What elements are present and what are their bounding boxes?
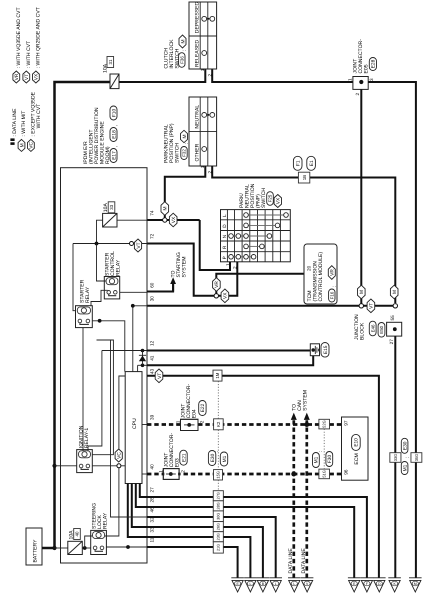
wire VX table pin1 to pin74 node [200, 220, 230, 270]
label F36 / M badge [179, 35, 188, 67]
harness connector K2 on pin39 wire [214, 419, 224, 430]
CPU box [125, 372, 142, 484]
svg-text:L: L [249, 582, 251, 586]
pin 2 clutch switch [208, 74, 213, 77]
svg-text:: WITH QR25DE AND CVT: : WITH QR25DE AND CVT [36, 7, 42, 68]
svg-text:96: 96 [343, 469, 348, 475]
junction starter relay output [98, 319, 102, 323]
svg-text:M: M [182, 135, 188, 139]
junction pin30/CPU [131, 304, 135, 308]
wire starter relay output [92, 321, 125, 372]
svg-text:VC: VC [29, 142, 35, 149]
legend data line sample [10, 108, 17, 145]
wire to starter relay coil [73, 244, 76, 311]
label IPDM E/R [83, 107, 111, 164]
offpage triangle B262 [257, 578, 270, 592]
wire starter relay to ignition relay coil [82, 328, 84, 451]
badge M on PNP pin2 wire [390, 285, 398, 299]
svg-text:CPU: CPU [132, 418, 138, 429]
pin 1 PNP VX table [225, 263, 230, 266]
label park/neutral position switch [164, 123, 181, 163]
svg-text:20: 20 [307, 265, 312, 271]
starter relay [76, 306, 93, 328]
badge VX on pin72 wire [221, 289, 229, 303]
pin 12 IPDM [150, 340, 155, 346]
wire pin12 to ignition relay coil [88, 351, 102, 451]
joint connector E03 E21 [158, 433, 187, 480]
svg-text:26G: 26G [217, 523, 221, 530]
svg-text:RELAY-1: RELAY-1 [84, 428, 90, 449]
wire PNP pin1 via M badge to pin74 node [165, 166, 206, 218]
node option split (open circle) E05 branch [359, 304, 363, 308]
harness connector 51G [313, 451, 334, 479]
svg-text:M: M [414, 582, 417, 586]
junction battery/fuse40 [52, 546, 56, 550]
svg-text:M1: M1 [402, 464, 408, 471]
svg-text:VX: VX [34, 73, 40, 80]
wire pin72 interior [73, 243, 147, 245]
svg-text:E15: E15 [323, 345, 329, 354]
svg-text:12: 12 [150, 340, 155, 346]
wire VR branch to TCM [216, 274, 304, 294]
label to CAN system [292, 390, 309, 411]
wire pin46 to ground triangle [147, 517, 276, 578]
badge VR on TCM branch [213, 278, 221, 292]
svg-text:RELAY: RELAY [85, 286, 91, 303]
fuse 31 10A [102, 57, 119, 89]
svg-text:E30: E30 [402, 441, 408, 450]
pin 55 junction block [390, 315, 395, 321]
node option split (open circle) junction block [393, 304, 397, 308]
label F32 / M badge [181, 130, 190, 159]
badge VT on pin30 bus [367, 299, 375, 313]
svg-text:21G: 21G [217, 544, 221, 551]
svg-text:VX: VX [223, 292, 229, 299]
badge M on PNP pin1 wire [161, 202, 169, 216]
node split pin74 (open circle) [163, 218, 167, 222]
wire steering relay coil feed [85, 536, 92, 548]
svg-text:: WITH CVT: : WITH CVT [26, 41, 32, 68]
svg-text:31: 31 [108, 59, 113, 64]
svg-text:23G: 23G [217, 533, 221, 540]
harness connector 33G [390, 438, 410, 474]
svg-text:74: 74 [150, 210, 155, 216]
svg-text::: : [184, 143, 190, 144]
wire battery feed bus [42, 82, 110, 548]
svg-text:DATA LINE: DATA LINE [288, 548, 294, 574]
wire steering relay output pin11 [106, 546, 147, 548]
wire pin41 interior [138, 365, 147, 371]
wire pin12 to E15 ground [147, 350, 310, 352]
svg-text:E21: E21 [181, 453, 187, 462]
svg-text:VX: VX [276, 197, 282, 204]
svg-text:VR: VR [14, 73, 20, 80]
pin 74 IPDM [150, 210, 155, 216]
dotted link 52G-51G [323, 429, 325, 469]
pin 2 PNP VX table [233, 266, 238, 269]
svg-text:N: N [222, 235, 227, 238]
svg-text:DATA LINE: DATA LINE [301, 548, 307, 574]
svg-text:M: M [392, 290, 398, 294]
data line wire pin40 to ECM [147, 473, 342, 476]
svg-text:RELEASED: RELEASED [194, 40, 200, 67]
svg-text:E50: E50 [379, 325, 384, 333]
wire E05 pin3 to right vertical [368, 82, 416, 578]
pin 28 IPDM [150, 497, 155, 503]
svg-text:F10: F10 [111, 109, 117, 118]
label to starting system [170, 252, 187, 277]
svg-text:40: 40 [150, 464, 155, 470]
pin 43 IPDM [150, 368, 155, 374]
pin 1 PNP switch [200, 165, 205, 168]
offpage triangle V307 [301, 578, 314, 592]
data line wire pin39 to ECM [147, 423, 342, 426]
label clutch interlock switch [163, 39, 180, 69]
svg-text:15G: 15G [216, 471, 221, 479]
svg-text:OTHER: OTHER [194, 143, 200, 161]
svg-text:BLOCK: BLOCK [359, 322, 365, 340]
IPDM E/R box [61, 168, 148, 563]
label starter relay [79, 279, 91, 303]
svg-text:30: 30 [150, 296, 155, 302]
wire VX table pin2 down [219, 262, 238, 296]
offpage triangle M415 [409, 578, 422, 592]
svg-text:WITH CVT: WITH CVT [36, 104, 42, 129]
svg-text:F32: F32 [182, 149, 187, 157]
wire pin30 interior [133, 306, 147, 372]
svg-text:CONTROL MODULE): CONTROL MODULE) [318, 252, 324, 302]
svg-text:33G: 33G [393, 454, 398, 462]
wire starter control relay to pin60 [120, 291, 147, 293]
legend badge VT [23, 41, 32, 83]
wire pin60 to starting system [147, 281, 173, 292]
wire fuse40 to steering lock relay [82, 547, 90, 549]
pin 27 IPDM [150, 487, 155, 493]
svg-text:RELAY: RELAY [115, 259, 121, 276]
svg-text:E1: E1 [309, 160, 315, 166]
wire pin74 node run [147, 219, 200, 221]
wire bus to pin46 [111, 340, 148, 517]
dotted link 15G-27G [217, 480, 219, 491]
pin 46 IPDM [150, 507, 155, 513]
svg-text:SYSTEM: SYSTEM [181, 257, 187, 278]
joint connector E05 E28 [348, 39, 377, 96]
svg-text:K2: K2 [216, 421, 221, 427]
pin 2 PNP switch [208, 171, 213, 174]
svg-text:E18: E18 [111, 130, 117, 139]
offpage triangle F366 [361, 578, 374, 592]
wire junction block to ground triangle [394, 336, 396, 578]
svg-text:72: 72 [150, 233, 155, 239]
pin 97 ECM [343, 420, 348, 426]
dotted link K2-15G [217, 430, 219, 470]
steering lock relay [91, 530, 107, 554]
svg-text:: WITH M/T: : WITH M/T [21, 111, 27, 137]
wire pin11 to ground triangle [147, 547, 238, 578]
badge M on E05 wire [358, 285, 366, 299]
node open circle VC [117, 464, 121, 468]
svg-text:SWITCH: SWITCH [175, 143, 181, 163]
svg-text:97: 97 [343, 420, 348, 426]
svg-text:NEUTRAL: NEUTRAL [194, 105, 200, 129]
legend badge M [18, 111, 27, 152]
svg-text:F25: F25 [268, 194, 273, 202]
svg-text:L: L [275, 582, 277, 586]
harness connector column 27G-21G [213, 491, 223, 553]
svg-text:E22: E22 [200, 403, 206, 412]
junction fuse40/coil [83, 546, 87, 550]
offpage triangle E237 [231, 578, 244, 592]
svg-text:52G: 52G [322, 420, 327, 428]
badge VX on pin74 wire [169, 213, 177, 227]
junction battery/ignition relay [52, 464, 56, 468]
svg-text:43: 43 [150, 368, 155, 374]
offpage triangle E354 [348, 578, 361, 592]
offpage triangle L250 [244, 578, 257, 592]
pin 27 junction block [389, 339, 394, 345]
svg-text:39: 39 [150, 414, 155, 420]
svg-text:M: M [180, 40, 186, 44]
svg-text:VR: VR [214, 281, 220, 288]
harness connector 52G [319, 419, 330, 429]
wire fuse33 feed [97, 220, 103, 243]
wire PNP pin2 to junction block branch [212, 166, 395, 303]
pin 72 IPDM [150, 233, 155, 239]
wire pin43 to ground triangle [147, 376, 379, 578]
svg-text:E17: E17 [111, 151, 117, 160]
svg-text:2: 2 [355, 93, 360, 96]
legend badge VC [28, 91, 43, 151]
svg-text:M1: M1 [314, 456, 320, 463]
svg-text:RELAY: RELAY [102, 512, 108, 529]
wire IPDM pin30 bus [147, 305, 395, 307]
label steering lock relay [91, 503, 108, 529]
junction CAN-L/pin40 [291, 472, 296, 477]
svg-text:VT: VT [136, 242, 142, 248]
label ignition relay-1 [78, 425, 90, 448]
svg-text:28G: 28G [217, 502, 221, 509]
svg-text:F16: F16 [329, 291, 334, 299]
svg-text:41: 41 [150, 355, 155, 361]
svg-text:E04: E04 [191, 409, 197, 418]
wire CPU to pin32 [132, 484, 147, 528]
svg-text:L: L [222, 214, 227, 217]
wire CPU to pin28 [136, 484, 147, 508]
badge VT inside IPDM [134, 239, 141, 252]
wire pin28 to ground triangle [147, 507, 354, 578]
svg-text:27: 27 [150, 487, 155, 493]
svg-text:E30: E30 [210, 453, 216, 462]
pin 32 IPDM [150, 517, 155, 523]
diode between pin12 and pin41 wires [139, 349, 146, 367]
svg-text:,: , [113, 146, 119, 147]
wire to starter control relay coil [97, 244, 106, 282]
svg-text:27G: 27G [217, 492, 221, 499]
svg-text:33: 33 [109, 204, 114, 209]
badge VC [115, 449, 122, 462]
svg-text:1: 1 [200, 165, 205, 168]
wire CPU to pin33 [128, 484, 147, 538]
ECM E10 [342, 417, 369, 480]
svg-text:VR: VR [330, 269, 336, 276]
label data line 2 [301, 548, 307, 574]
data line wire CAN-L vertical [292, 420, 295, 578]
junction block E46 E50 [354, 314, 402, 340]
wire pin12 interior [102, 350, 147, 352]
wire fuse40 feed [55, 547, 68, 549]
wire VC riser [119, 376, 125, 449]
harness connector 1M on pin43 wire [213, 370, 222, 381]
svg-text:VT: VT [369, 303, 375, 309]
svg-text::: : [214, 451, 220, 452]
wire fuse33 to pin 74 [117, 219, 147, 221]
svg-text:1: 1 [348, 78, 353, 81]
label F25 / VX badge [267, 192, 282, 208]
pin 40 IPDM [150, 464, 155, 470]
svg-text:M1: M1 [222, 455, 228, 462]
svg-text:1M: 1M [215, 372, 220, 378]
svg-text:1: 1 [158, 470, 163, 473]
pin 60 IPDM [150, 282, 155, 288]
joint connector E04 E22 [176, 384, 207, 431]
park/neutral position switch F25 (VX) [221, 210, 291, 262]
junction pin11/CPU [126, 545, 130, 549]
wire pin27 to ground triangle [147, 497, 367, 578]
svg-text::: : [404, 457, 410, 458]
offpage triangle K394 [388, 578, 401, 592]
wire pin33 to ground triangle [147, 537, 250, 578]
svg-text:F30: F30 [327, 455, 333, 464]
svg-text:F: F [366, 582, 368, 586]
svg-text:F1: F1 [296, 160, 302, 166]
svg-text:F36: F36 [179, 56, 184, 64]
harness connector 15G on pin40 wire [208, 451, 227, 481]
svg-text:1: 1 [200, 68, 205, 71]
node split pin72 (open circle) [214, 294, 218, 298]
wire CPU to pin27 [140, 484, 147, 498]
arrow CAN 2 [304, 413, 310, 420]
node open circle pin72 [130, 242, 134, 246]
svg-text:M: M [163, 207, 169, 211]
badge VT on pin43 wire [155, 369, 163, 383]
harness connector 1B F1/E1 [293, 156, 315, 183]
svg-text::: : [182, 50, 188, 51]
wire pin32 to ground triangle [147, 527, 263, 578]
pin 11 IPDM [150, 537, 155, 542]
svg-text:35G: 35G [414, 454, 419, 462]
svg-text:L: L [293, 582, 295, 586]
clutch interlock switch F36 [189, 1, 217, 69]
svg-text:E46: E46 [370, 324, 375, 332]
svg-text:: DATA LINE: : DATA LINE [12, 108, 18, 137]
svg-text:1B: 1B [302, 175, 307, 180]
svg-text:2: 2 [180, 470, 185, 473]
svg-text:60: 60 [150, 282, 155, 288]
svg-text:ECM: ECM [354, 453, 360, 464]
TCM transmission control module F16 [304, 244, 337, 304]
pin 96 ECM [343, 469, 348, 475]
wire ignition relay coil branch [92, 340, 113, 455]
battery [26, 528, 42, 565]
legend badge VR [13, 7, 22, 83]
ground E15 [310, 343, 329, 358]
data line wire CAN-H vertical [305, 420, 308, 578]
arrow to starting system [170, 277, 176, 291]
svg-text:M: M [359, 290, 365, 294]
ignition relay-1 [77, 450, 93, 473]
offpage triangle L275 [269, 578, 282, 592]
svg-text:E10: E10 [354, 438, 360, 447]
svg-text:,: , [113, 125, 119, 126]
svg-text:11: 11 [150, 537, 155, 542]
wire IPDM pin72 run to node [147, 244, 214, 296]
svg-text:40: 40 [75, 531, 80, 536]
offpage triangle L294 [288, 578, 301, 592]
pin 1 clutch switch [200, 68, 205, 71]
svg-text:E05: E05 [364, 64, 370, 73]
fuse 40 10A [68, 529, 83, 555]
svg-text:1: 1 [176, 420, 181, 423]
wire E05 pin2 down [360, 89, 362, 305]
svg-text:BATTERY: BATTERY [33, 539, 39, 563]
wire starter control relay contact feed [91, 290, 108, 305]
fuse 33 10A [103, 202, 117, 227]
svg-text:51G: 51G [322, 470, 327, 478]
svg-text:2: 2 [199, 420, 204, 423]
starter control relay [104, 277, 119, 299]
wire pin41 to E15 ground [147, 356, 313, 366]
legend badge VX [33, 7, 42, 83]
dotted link 1M-K2 [217, 381, 219, 419]
svg-text:DEPRESSED: DEPRESSED [194, 1, 200, 33]
wire CPU CAN stubs [142, 425, 147, 475]
svg-text:27: 27 [389, 339, 394, 345]
wire fuse31 to clutch switch [119, 70, 205, 83]
pin 39 IPDM [150, 414, 155, 420]
pin 41 IPDM [150, 355, 155, 361]
label park/neutral position switch VX [239, 183, 267, 208]
arrow CAN 1 [291, 413, 297, 420]
svg-text:SYSTEM: SYSTEM [303, 390, 309, 411]
svg-text::: : [318, 451, 324, 452]
svg-text:3: 3 [369, 78, 374, 81]
svg-text:M: M [19, 143, 25, 147]
svg-text:30G: 30G [217, 513, 221, 520]
pin 30 IPDM [150, 296, 155, 302]
svg-text:P: P [222, 256, 227, 259]
label starter control relay [104, 251, 121, 276]
park/neutral position switch F32 (M/T) [189, 97, 217, 166]
svg-text:E28: E28 [371, 59, 377, 68]
labels E17 E18 F10 [110, 106, 119, 163]
junction fuse33/relay coils [95, 242, 99, 246]
label data line 1 [288, 548, 294, 574]
harness connector 35G [411, 453, 422, 463]
svg-text:55: 55 [390, 315, 395, 321]
svg-text:SWITCH: SWITCH [261, 188, 267, 208]
svg-text:VT: VT [157, 373, 163, 379]
wire ignition relay output to CPU [92, 465, 125, 467]
wire steering relay coil to VC line [105, 468, 119, 536]
offpage triangle D379 [373, 578, 386, 592]
svg-text:VX: VX [171, 216, 177, 223]
svg-text:VC: VC [117, 452, 123, 459]
svg-text:VT: VT [24, 74, 30, 80]
junction CAN-H/pin39 [304, 422, 309, 427]
pin 33 IPDM [150, 527, 155, 533]
svg-text::: : [331, 286, 337, 287]
wire clutch pin2 to joint connector E05 [212, 70, 353, 83]
